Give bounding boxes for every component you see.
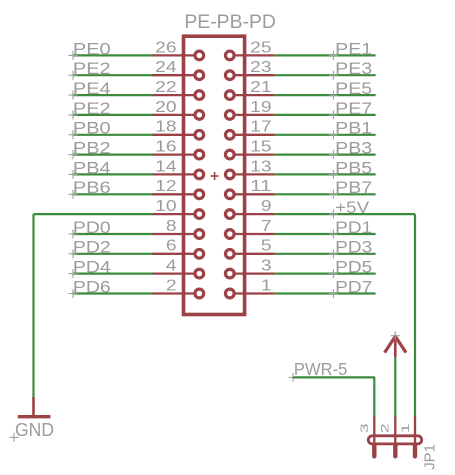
ground symbol GND xyxy=(18,397,51,417)
wire net PB2 (left row 6) xyxy=(73,154,153,156)
svg-text:23: 23 xyxy=(250,59,271,76)
pin 5 (right, row 11) xyxy=(225,249,274,258)
label PD3 xyxy=(329,239,372,259)
wire net PB5 (right row 7) xyxy=(275,173,376,175)
wire net PE2 (left row 4) xyxy=(73,114,153,116)
pin 4 (left, row 12) xyxy=(152,269,203,278)
wire net PB4 (left row 7) xyxy=(73,173,153,175)
pin 21 (right, row 3) xyxy=(225,91,274,100)
svg-text:17: 17 xyxy=(250,119,271,136)
svg-text:21: 21 xyxy=(250,79,271,96)
pin 22 (left, row 3) xyxy=(152,91,203,100)
label PE0 xyxy=(69,40,111,60)
pin 25 (right, row 1) xyxy=(225,51,274,60)
svg-text:PE5: PE5 xyxy=(335,80,372,98)
svg-text:PD6: PD6 xyxy=(73,278,111,296)
wire +5V net: right vertical drop to JP1 pin 1 xyxy=(414,214,416,417)
label PB4 xyxy=(69,159,111,179)
svg-text:6: 6 xyxy=(166,238,177,255)
svg-text:18: 18 xyxy=(155,119,176,136)
svg-text:PE7: PE7 xyxy=(335,100,372,118)
label PD4 xyxy=(69,259,111,279)
svg-text:10: 10 xyxy=(155,198,176,215)
svg-text:19: 19 xyxy=(250,99,271,116)
JP1 pin 2 xyxy=(394,417,396,457)
svg-text:GND: GND xyxy=(15,419,54,440)
pin 19 (right, row 4) xyxy=(225,111,274,120)
pin 14 (left, row 7) xyxy=(152,170,203,179)
label PD2 xyxy=(69,239,111,259)
JP1 pin 3 xyxy=(373,417,375,457)
connector origin cross xyxy=(211,172,219,180)
pin 7 (right, row 10) xyxy=(225,230,274,239)
svg-text:PWR-5: PWR-5 xyxy=(294,359,348,379)
svg-text:13: 13 xyxy=(250,158,271,175)
svg-text:1: 1 xyxy=(261,277,272,294)
svg-text:+5V: +5V xyxy=(335,199,369,217)
svg-text:4: 4 xyxy=(166,258,177,275)
connector PE-PB-PD body xyxy=(184,36,245,314)
svg-text:12: 12 xyxy=(155,178,176,195)
svg-text:JP1: JP1 xyxy=(422,444,438,470)
label PD5 xyxy=(329,259,372,279)
pin 24 (left, row 2) xyxy=(152,71,203,80)
pin 15 (right, row 6) xyxy=(225,150,274,159)
svg-text:PE2: PE2 xyxy=(73,100,111,118)
wire net PD0 (left row 10) xyxy=(73,233,153,235)
svg-text:PD3: PD3 xyxy=(335,239,372,257)
svg-text:PD7: PD7 xyxy=(335,278,372,296)
svg-text:9: 9 xyxy=(261,198,272,215)
svg-text:22: 22 xyxy=(155,79,176,96)
wire net PE0 (left row 1) xyxy=(73,54,153,56)
wire PWR-5 net: horizontal then drop to JP1 pin 3 xyxy=(293,377,374,417)
svg-text:PE1: PE1 xyxy=(335,40,372,58)
label PD1 xyxy=(329,219,372,239)
svg-text:PE0: PE0 xyxy=(73,40,111,58)
wire supply net: vertical to JP1 pin 2 xyxy=(394,357,396,418)
svg-text:3: 3 xyxy=(359,423,371,433)
label PB5 xyxy=(329,159,372,179)
svg-text:24: 24 xyxy=(155,59,177,76)
svg-text:PB4: PB4 xyxy=(73,159,111,177)
svg-text:15: 15 xyxy=(250,139,271,156)
svg-text:PB1: PB1 xyxy=(335,120,372,138)
wire net PB0 (left row 5) xyxy=(73,134,153,136)
label PB0 xyxy=(69,120,111,140)
pin 12 (left, row 8) xyxy=(152,190,203,199)
label PE4 xyxy=(69,80,111,100)
pin 9 (right, row 9) xyxy=(225,210,274,219)
label PD7 xyxy=(329,278,372,298)
svg-text:PB7: PB7 xyxy=(335,179,372,197)
wire net PD7 (right row 13) xyxy=(275,292,376,294)
wire net PD1 (right row 10) xyxy=(275,233,376,235)
wire net PB3 (right row 6) xyxy=(275,154,376,156)
svg-text:PB3: PB3 xyxy=(335,140,372,158)
label PE1 xyxy=(329,40,372,60)
pin 2 (left, row 13) xyxy=(152,289,203,298)
pin 13 (right, row 7) xyxy=(225,170,274,179)
label PB7 xyxy=(329,179,372,199)
label +5V xyxy=(329,199,370,219)
wire net PB1 (right row 5) xyxy=(275,134,376,136)
pin 26 (left, row 1) xyxy=(152,51,203,60)
svg-text:PB0: PB0 xyxy=(73,120,111,138)
svg-text:7: 7 xyxy=(261,218,272,235)
label PD0 xyxy=(69,219,111,239)
pin 6 (left, row 11) xyxy=(152,249,203,258)
wire net PD3 (right row 11) xyxy=(275,253,376,255)
svg-text:2: 2 xyxy=(166,277,177,294)
wire +5V net: row 10 horizontal xyxy=(275,213,415,215)
wire net PB6 (left row 8) xyxy=(73,193,153,195)
label PB3 xyxy=(329,140,372,160)
svg-text:1: 1 xyxy=(400,423,412,433)
svg-text:20: 20 xyxy=(155,99,176,116)
label GND xyxy=(10,419,55,442)
label PB2 xyxy=(69,140,111,160)
pin 8 (left, row 10) xyxy=(152,230,203,239)
wire net PD5 (right row 12) xyxy=(275,273,376,275)
svg-text:PE-PB-PD: PE-PB-PD xyxy=(184,11,276,33)
svg-text:PB2: PB2 xyxy=(73,140,111,158)
label PE3 xyxy=(329,60,372,80)
label PB1 xyxy=(329,120,372,140)
wire GND net: left vertical drop xyxy=(32,214,34,397)
svg-text:26: 26 xyxy=(155,39,176,56)
wire net PE4 (left row 3) xyxy=(73,94,153,96)
label PWR-5 xyxy=(289,359,348,382)
label PE2 xyxy=(69,60,111,80)
svg-text:PD0: PD0 xyxy=(73,219,111,237)
pin 10 (left, row 9) xyxy=(152,210,203,219)
svg-text:16: 16 xyxy=(155,139,176,156)
svg-text:PB5: PB5 xyxy=(335,159,372,177)
label PE5 xyxy=(329,80,372,100)
svg-text:3: 3 xyxy=(261,258,272,275)
pin 18 (left, row 5) xyxy=(152,130,203,139)
svg-text:PD1: PD1 xyxy=(335,219,372,237)
svg-text:8: 8 xyxy=(166,218,177,235)
label PD6 xyxy=(69,278,111,298)
wire net PD2 (left row 11) xyxy=(73,253,153,255)
wire GND net: row 10 horizontal to connector xyxy=(34,213,153,215)
supply arrow symbol xyxy=(385,331,406,357)
svg-text:PE2: PE2 xyxy=(73,60,111,78)
wire net PE2 (left row 2) xyxy=(73,74,153,76)
pin 17 (right, row 5) xyxy=(225,130,274,139)
svg-text:PD5: PD5 xyxy=(335,259,372,277)
connector JP1 body xyxy=(368,436,421,444)
svg-text:2: 2 xyxy=(379,423,391,433)
pin 20 (left, row 4) xyxy=(152,111,203,120)
label PE2 xyxy=(69,100,111,120)
svg-text:14: 14 xyxy=(155,158,177,175)
svg-text:PE4: PE4 xyxy=(73,80,111,98)
wire net PE3 (right row 2) xyxy=(275,74,376,76)
svg-text:PD2: PD2 xyxy=(73,239,111,257)
svg-text:PE3: PE3 xyxy=(335,60,372,78)
pin 16 (left, row 6) xyxy=(152,150,203,159)
wire net PD4 (left row 12) xyxy=(73,273,153,275)
pin 23 (right, row 2) xyxy=(225,71,274,80)
wire net PD6 (left row 13) xyxy=(73,292,153,294)
JP1 pin 1 xyxy=(414,417,416,457)
label PB6 xyxy=(69,179,111,199)
wire net PE7 (right row 4) xyxy=(275,114,376,116)
wire net PE1 (right row 1) xyxy=(275,54,376,56)
pin 11 (right, row 8) xyxy=(225,190,274,199)
wire net PE5 (right row 3) xyxy=(275,94,376,96)
svg-text:PB6: PB6 xyxy=(73,179,111,197)
wire net PB7 (right row 8) xyxy=(275,193,376,195)
svg-text:5: 5 xyxy=(261,238,272,255)
pin 3 (right, row 12) xyxy=(225,269,274,278)
svg-text:11: 11 xyxy=(250,178,271,195)
label PE7 xyxy=(329,100,372,120)
pin 1 (right, row 13) xyxy=(225,289,274,298)
svg-text:PD4: PD4 xyxy=(73,259,111,277)
svg-text:25: 25 xyxy=(250,39,271,56)
